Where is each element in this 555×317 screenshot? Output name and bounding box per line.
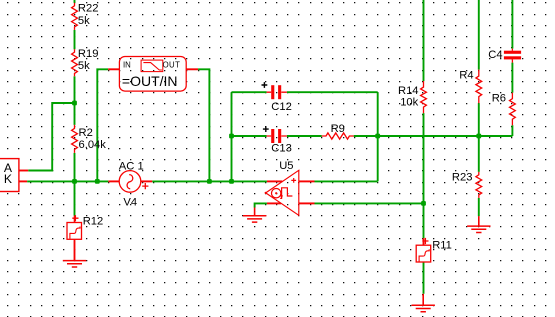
- wire R4 top: [478, 0, 480, 70]
- node junction CR-R9 (377.7,136): [375, 134, 380, 139]
- AC source V4: [119, 160, 149, 208]
- svg-text:C13: C13: [271, 142, 292, 154]
- wire R4 to junction: [478, 103, 480, 172]
- wire U5 out2 stub: [299, 202, 315, 204]
- nonlinear resistor R12: [67, 215, 103, 260]
- wire long feedback to R6 line: [378, 135, 513, 137]
- wire R11 to gnd: [423, 262, 425, 294]
- wire L1 R2-bus segment: [74, 153, 76, 182]
- wire U5 out1 stub: [299, 180, 315, 182]
- node junction bus-IN (97.3,181.4): [95, 179, 100, 184]
- wire L1 top stub: [74, 0, 76, 3]
- svg-text:R12: R12: [83, 215, 104, 227]
- op-amp U5: [265, 160, 299, 215]
- node junction bus-CL (231.5,181.4): [229, 179, 234, 184]
- nonlinear resistor R11: [416, 238, 452, 262]
- ground under R12: [63, 240, 86, 267]
- wire node CL vertical: [231, 92, 233, 181]
- resistor R14: [398, 81, 426, 113]
- wire C13 branch left: [232, 135, 267, 137]
- svg-text:5k: 5k: [78, 15, 90, 27]
- svg-text:R19: R19: [78, 48, 99, 60]
- wire bus K to V4: [27, 180, 108, 182]
- wire node CR vertical: [377, 92, 379, 181]
- resistor R4: [459, 70, 481, 103]
- wire U5 gnd stub: [267, 202, 281, 204]
- ground under R23: [467, 216, 490, 232]
- wire bus V4 to U5: [152, 180, 267, 182]
- resistor R9: [322, 123, 354, 139]
- svg-text:5k: 5k: [78, 60, 90, 72]
- svg-text:R9: R9: [331, 123, 345, 135]
- wire L1 bus-R12 segment: [74, 181, 76, 215]
- resistor R6: [492, 92, 516, 125]
- node junction feedback-R4 (478.8,136): [476, 134, 481, 139]
- svg-text:R4: R4: [459, 70, 473, 82]
- wire A-pin stub: [19, 170, 28, 172]
- svg-text:R2: R2: [79, 127, 93, 139]
- wire K-pin stub: [19, 180, 27, 182]
- svg-text:R23: R23: [452, 172, 473, 184]
- capacitor C13: [263, 126, 292, 154]
- wire bus to IN: [97, 69, 108, 181]
- svg-text:OUT: OUT: [163, 60, 181, 69]
- wire U5 out1 to CR: [315, 180, 378, 182]
- node junction CL-C13 (231.5,136): [229, 134, 234, 139]
- node junction bus-L1 (74.5,181.4): [72, 179, 77, 184]
- wire C4 to R6: [511, 63, 513, 93]
- wire L1 R19-R2 segment: [74, 76, 76, 125]
- svg-text:R6: R6: [492, 92, 506, 104]
- wire V4 right stub: [141, 180, 153, 182]
- svg-text:AC 1: AC 1: [119, 160, 144, 172]
- wire R11 top stub: [423, 238, 425, 245]
- wire R6 bottom: [511, 125, 513, 136]
- svg-text:IN: IN: [123, 60, 131, 69]
- svg-text:V4: V4: [123, 197, 137, 209]
- wire IN stub: [108, 68, 119, 70]
- wire U5 gnd wire: [255, 203, 267, 207]
- ground under R11: [412, 294, 435, 312]
- svg-text:R14: R14: [398, 85, 419, 97]
- svg-text:R22: R22: [78, 3, 99, 15]
- wire R14 to junction: [423, 113, 425, 238]
- resistor R19: [72, 48, 99, 76]
- wire C4 top: [511, 0, 513, 49]
- node junction A-R2 (74.5,103): [72, 101, 77, 106]
- port A/K: [0, 159, 19, 192]
- wire OUT to bus: [198, 69, 209, 181]
- svg-text:C4: C4: [488, 49, 502, 61]
- node junction out2-R11 (423.5,203.4): [421, 201, 426, 206]
- capacitor C4: [488, 49, 521, 63]
- wire C12 branch right: [287, 91, 378, 93]
- ground under U5: [243, 208, 266, 223]
- svg-text:10k: 10k: [400, 97, 418, 109]
- resistor R2: [72, 125, 107, 153]
- wire R9 to node CR: [354, 135, 378, 137]
- node junction bus-OUT (209.4,181.4): [207, 179, 212, 184]
- wire U5 +in stub: [267, 180, 282, 182]
- wire OUT stub: [186, 68, 198, 70]
- wire A-pin to node: [28, 103, 74, 171]
- controlled source block =OUT/IN: [119, 57, 186, 92]
- resistor R23: [452, 172, 482, 198]
- resistor R22: [72, 3, 99, 30]
- wire R14 top: [423, 0, 425, 81]
- svg-text:=OUT/IN: =OUT/IN: [122, 73, 178, 89]
- svg-text:6.04k: 6.04k: [79, 139, 107, 151]
- svg-text:U5: U5: [279, 160, 293, 172]
- wire L1 R22-R19 segment: [74, 30, 76, 49]
- wire V4 left stub: [108, 180, 119, 182]
- wire U5 out2 to R11 line: [315, 202, 424, 204]
- svg-text:R11: R11: [432, 240, 452, 252]
- wire C13 to R9: [287, 135, 322, 137]
- svg-text:K: K: [4, 172, 12, 186]
- capacitor C12: [262, 82, 292, 113]
- svg-text:C12: C12: [271, 101, 292, 113]
- wire C12 branch left: [232, 91, 267, 93]
- wire R23 to gnd: [478, 198, 480, 216]
